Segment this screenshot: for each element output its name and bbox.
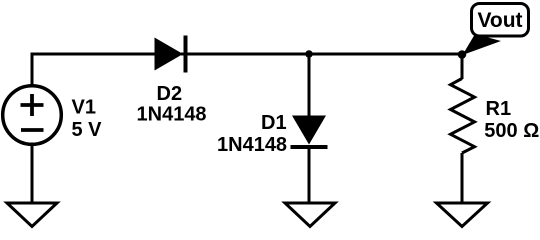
ground (below D1): [285, 203, 335, 227]
svg-text:R1: R1: [486, 98, 512, 120]
wire: V1 negative terminal to ground: [31, 144, 34, 203]
diode D2: [155, 36, 186, 73]
wire: R1 to ground: [461, 153, 464, 203]
diode D1: [291, 116, 328, 148]
Vout callout pointer tail: [463, 34, 502, 55]
resistor R1: [451, 79, 475, 154]
wire: node A down to D1 anode: [308, 54, 311, 117]
svg-text:1N4148: 1N4148: [137, 104, 207, 126]
svg-text:500 Ω: 500 Ω: [484, 120, 539, 142]
wire: V1 positive terminal up and right to D2 anode: [32, 54, 156, 87]
Vout callout box: [472, 4, 529, 37]
wire: node A to node Vout: [309, 53, 462, 56]
ground (below V1): [7, 203, 57, 227]
node Vout junction dot: [458, 50, 467, 59]
voltage source V1: [3, 86, 62, 145]
svg-text:1N4148: 1N4148: [217, 134, 287, 156]
wire: D2 cathode to node A: [181, 53, 309, 56]
svg-text:D2: D2: [157, 83, 183, 105]
svg-text:D1: D1: [261, 112, 287, 134]
svg-text:V1: V1: [72, 97, 96, 119]
wire: node Vout down to R1: [461, 54, 464, 79]
svg-text:5 V: 5 V: [72, 119, 103, 141]
ground (below R1): [437, 203, 488, 227]
svg-text:Vout: Vout: [477, 9, 522, 32]
node A junction dot: [305, 50, 313, 58]
wire: D1 cathode to ground: [308, 147, 311, 203]
